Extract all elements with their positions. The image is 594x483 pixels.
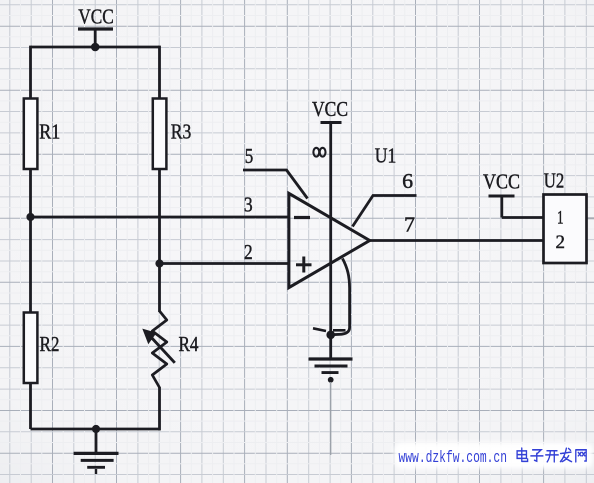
svg-text:R3: R3 <box>171 119 192 143</box>
svg-text:7: 7 <box>404 213 415 237</box>
svg-text:www.dzkfw.com.cn: www.dzkfw.com.cn <box>399 449 508 468</box>
svg-text:U1: U1 <box>375 144 397 168</box>
svg-text:VCC: VCC <box>78 5 114 29</box>
svg-text:5: 5 <box>245 144 254 168</box>
svg-text:VCC: VCC <box>483 170 520 194</box>
svg-text:6: 6 <box>402 169 413 193</box>
svg-text:2: 2 <box>244 240 253 264</box>
svg-text:R2: R2 <box>40 332 60 356</box>
svg-text:VCC: VCC <box>312 97 348 121</box>
svg-text:R4: R4 <box>179 332 199 356</box>
svg-text:1: 1 <box>557 208 564 229</box>
svg-text:3: 3 <box>244 192 253 216</box>
svg-text:R1: R1 <box>39 119 60 143</box>
svg-text:U2: U2 <box>544 169 565 193</box>
svg-text:2: 2 <box>556 232 566 253</box>
